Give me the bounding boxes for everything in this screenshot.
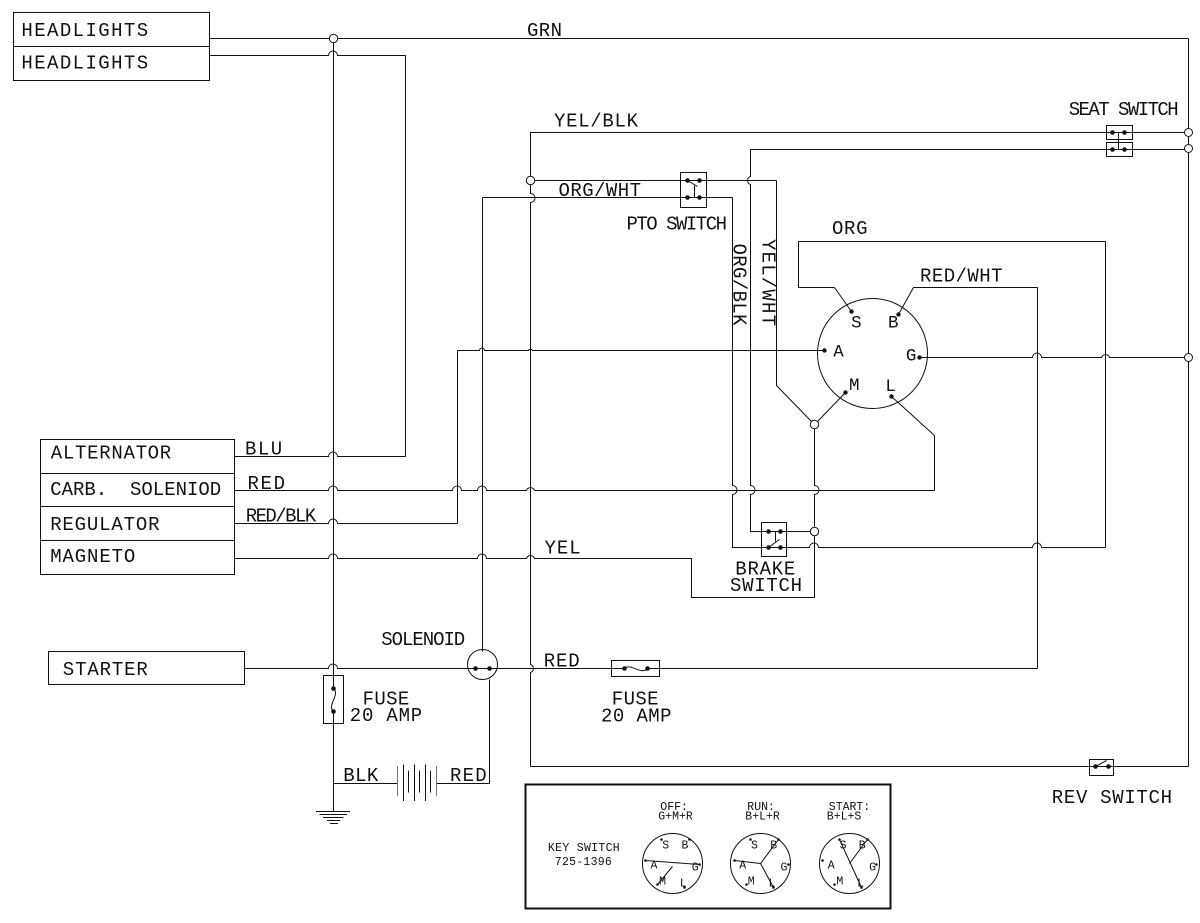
terminal circle G wire xyxy=(1185,354,1193,362)
svg-text:RED: RED xyxy=(450,765,487,787)
wire brake to M junction vertical xyxy=(815,429,820,527)
node M junction xyxy=(810,420,818,428)
svg-text:M: M xyxy=(849,376,860,396)
fuse F1 element xyxy=(331,689,335,712)
REV switch box xyxy=(1090,760,1114,776)
wire key G lead GRN xyxy=(920,353,1189,358)
svg-text:A: A xyxy=(828,859,835,872)
legend circle RUN xyxy=(731,834,791,894)
svg-text:S: S xyxy=(751,840,758,853)
svg-text:HEADLIGHTS: HEADLIGHTS xyxy=(21,20,148,42)
wire brake switch bottom row ORG xyxy=(733,543,1106,548)
REV switch pin 2 xyxy=(1106,764,1111,769)
wire key L lead xyxy=(892,397,935,491)
ground xyxy=(316,811,350,813)
svg-text:BLU: BLU xyxy=(245,439,282,461)
seat switch box upper xyxy=(1107,126,1133,140)
legend circle START xyxy=(820,834,880,894)
wire ORG/WHT to PTO switch xyxy=(535,180,777,182)
seat switch gang bar xyxy=(1118,133,1120,150)
svg-text:PTO SWITCH: PTO SWITCH xyxy=(627,213,728,235)
svg-text:SEAT SWITCH: SEAT SWITCH xyxy=(1069,99,1179,121)
wire YEL magneto xyxy=(235,536,815,598)
wire RED carb solenoid xyxy=(235,486,935,491)
box MAGNETO xyxy=(41,541,235,575)
svg-text:RED/BLK: RED/BLK xyxy=(246,506,317,528)
seat switch pin 2 xyxy=(1122,130,1127,135)
svg-text:A: A xyxy=(833,342,844,362)
seat switch pin 4 xyxy=(1122,147,1127,152)
wire GRN net xyxy=(210,38,1189,40)
wire starter to solenoid xyxy=(245,664,625,669)
svg-text:20 AMP: 20 AMP xyxy=(350,705,422,727)
svg-text:STARTER: STARTER xyxy=(63,659,148,681)
svg-text:GRN: GRN xyxy=(527,20,562,42)
fuse F2 pin 1 xyxy=(622,666,627,671)
svg-text:G+M+R: G+M+R xyxy=(658,811,693,824)
key switch circle xyxy=(818,299,928,409)
fuse F2 box xyxy=(612,661,660,677)
wire YEL/BLK net xyxy=(531,133,1189,181)
svg-text:ORG/BLK: ORG/BLK xyxy=(728,244,750,327)
brake switch pin 2 xyxy=(778,529,783,534)
svg-text:RED: RED xyxy=(544,651,580,673)
svg-text:725-1396: 725-1396 xyxy=(555,856,612,869)
svg-text:BLK: BLK xyxy=(343,765,379,787)
brake switch box xyxy=(762,523,787,557)
svg-text:REGULATOR: REGULATOR xyxy=(50,514,159,536)
PTO switch pin 4 xyxy=(697,195,702,200)
box HEADLIGHTS 1 xyxy=(14,13,210,47)
wire headlights-2 to alternator BLU xyxy=(210,51,406,457)
wire RED/BLK vertical xyxy=(457,351,459,524)
svg-text:RED/WHT: RED/WHT xyxy=(920,265,1003,287)
box ALTERNATOR xyxy=(41,440,235,474)
svg-text:G: G xyxy=(869,862,876,875)
svg-text:G: G xyxy=(781,862,788,875)
svg-text:G: G xyxy=(692,862,699,875)
PTO switch box xyxy=(681,173,707,208)
key terminal G xyxy=(917,355,921,359)
solenoid pin 2 xyxy=(487,666,492,671)
svg-text:YEL: YEL xyxy=(545,538,581,560)
wire key A lead xyxy=(458,348,825,351)
svg-text:SWITCH: SWITCH xyxy=(730,575,802,597)
key terminal M xyxy=(843,390,847,394)
svg-text:B: B xyxy=(888,313,899,333)
node ORG/WHT junction xyxy=(526,176,534,184)
seat switch pin 3 xyxy=(1110,147,1115,152)
key terminal B xyxy=(896,312,900,316)
seat switch pin 1 xyxy=(1110,130,1115,135)
wire ORG/BLK vertical to brake switch xyxy=(733,198,762,548)
wire REV switch net xyxy=(531,766,1189,768)
svg-text:ORG/WHT: ORG/WHT xyxy=(559,180,642,202)
wire brake switch top row xyxy=(751,531,811,533)
PTO switch pin 1 xyxy=(685,178,690,183)
PTO switch pin 3 xyxy=(685,195,690,200)
wire right edge vertical GRN xyxy=(1188,39,1190,767)
wire RED/BLK regulator xyxy=(235,519,458,524)
fuse F1 pin 1 xyxy=(331,686,336,691)
svg-text:B: B xyxy=(682,840,689,853)
svg-text:B+L+S: B+L+S xyxy=(827,811,862,824)
svg-text:MAGNETO: MAGNETO xyxy=(50,546,135,568)
node brake-M junction xyxy=(810,527,818,535)
brake switch pin 4 xyxy=(778,545,783,550)
PTO switch lever xyxy=(688,181,698,187)
wire YEL/BLK vertical xyxy=(531,185,536,767)
wire ORG net xyxy=(799,242,1106,548)
brake switch lever xyxy=(769,540,780,548)
wire ORG/WHT vertical to solenoid xyxy=(482,198,484,652)
wire fuse to battery BLK xyxy=(334,712,398,784)
svg-text:SOLENOID: SOLENOID xyxy=(381,629,465,651)
wire BLU xyxy=(235,452,406,457)
svg-text:ALTERNATOR: ALTERNATOR xyxy=(51,442,171,464)
wire seat switch lower YEL/WHT xyxy=(751,149,1189,151)
wire ground drop xyxy=(333,784,335,812)
wire battery RED to solenoid xyxy=(437,680,490,784)
svg-text:CARB. SOLENIOD: CARB. SOLENIOD xyxy=(50,479,221,501)
wire YEL/WHT vertical xyxy=(748,150,769,532)
brake switch pin 1 xyxy=(766,529,771,534)
box CARB. SOLENIOD xyxy=(41,474,235,507)
wire ORG/WHT down to M junction xyxy=(777,181,812,422)
legend circle OFF xyxy=(643,834,703,894)
wire key S lead xyxy=(835,288,852,312)
wire PTO switch lower ORG/BLK xyxy=(483,197,733,199)
REV switch lever xyxy=(1096,761,1107,767)
svg-text:KEY SWITCH: KEY SWITCH xyxy=(548,842,620,855)
fuse F1 pin 2 xyxy=(331,709,336,714)
svg-text:G: G xyxy=(906,347,917,367)
PTO switch pin 2 xyxy=(697,178,702,183)
battery xyxy=(397,766,399,796)
node GRN junction xyxy=(329,34,337,42)
svg-text:HEADLIGHTS: HEADLIGHTS xyxy=(21,52,148,74)
brake switch pin 3 xyxy=(766,545,771,550)
svg-text:YEL/BLK: YEL/BLK xyxy=(554,111,639,133)
wire solenoid RED to fuse xyxy=(648,668,1038,670)
solenoid circle xyxy=(468,650,498,680)
svg-text:M: M xyxy=(748,876,755,889)
fuse F2 pin 2 xyxy=(645,666,650,671)
svg-text:YEL/WHT: YEL/WHT xyxy=(757,239,779,326)
terminal circle seat lower xyxy=(1185,145,1193,153)
key terminal L xyxy=(889,394,893,398)
legend box xyxy=(526,785,891,909)
wire main vertical GRN-battery xyxy=(333,43,335,689)
box HEADLIGHTS 2 xyxy=(14,47,210,81)
seat switch box lower xyxy=(1107,143,1133,157)
wire key M lead xyxy=(818,393,846,422)
svg-text:REV SWITCH: REV SWITCH xyxy=(1052,787,1172,809)
svg-text:S: S xyxy=(662,840,669,853)
key terminal A xyxy=(822,348,826,352)
svg-text:S: S xyxy=(851,313,862,333)
box STARTER xyxy=(49,652,245,685)
key terminal S xyxy=(849,309,853,313)
fuse F1 box xyxy=(324,676,344,724)
svg-text:M: M xyxy=(836,876,843,889)
svg-text:L: L xyxy=(680,878,687,891)
terminal circle seat upper xyxy=(1185,129,1193,137)
box REGULATOR xyxy=(41,507,235,541)
wire RED/WHT net xyxy=(899,288,1038,669)
fuse F2 element xyxy=(625,667,648,671)
svg-text:RED: RED xyxy=(248,473,286,495)
REV switch pin 1 xyxy=(1093,764,1098,769)
svg-text:L: L xyxy=(885,377,896,397)
svg-text:B+L+R: B+L+R xyxy=(745,811,780,824)
svg-text:20 AMP: 20 AMP xyxy=(601,705,672,727)
svg-text:ORG: ORG xyxy=(832,218,868,240)
solenoid pin 1 xyxy=(473,666,478,671)
